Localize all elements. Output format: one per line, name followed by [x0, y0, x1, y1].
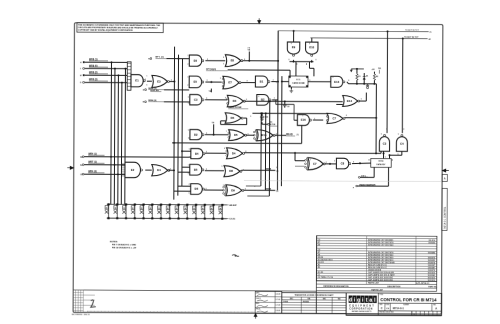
svg-text:d: d — [349, 297, 352, 303]
DEC digital logo — [349, 295, 353, 302]
svg-text:5: 5 — [250, 116, 251, 118]
svg-text:6: 6 — [361, 99, 362, 101]
network bottom rail — [107, 217, 227, 220]
svg-text:2-7-68: 2-7-68 — [276, 305, 281, 307]
network cell 6: resistor and diode — [151, 205, 153, 219]
handwritten mark 2 — [91, 300, 96, 307]
test point stub T.B — [213, 124, 215, 134]
svg-text:9: 9 — [332, 77, 333, 79]
svg-text:A: A — [444, 178, 446, 181]
svg-text:2: 2 — [188, 173, 189, 175]
wire D2 to D5 — [205, 134, 229, 136]
svg-text:8: 8 — [145, 79, 146, 81]
network cell 5: resistor and diode — [143, 204, 145, 218]
wire B4 to D4 — [205, 152, 227, 154]
gate D6 — [225, 113, 243, 123]
svg-text:DESCRIPTION: DESCRIPTION — [387, 286, 401, 288]
svg-text:1: 1 — [223, 185, 224, 187]
svg-text:E13: E13 — [334, 80, 339, 84]
wire E2 to E4 — [145, 169, 151, 171]
svg-text:D1: D1 — [366, 76, 368, 78]
svg-text:8: 8 — [315, 60, 316, 62]
svg-text:C2 (7): C2 (7) — [229, 219, 235, 221]
gate C7 (xor) — [305, 158, 326, 170]
faint scanner streak — [244, 180, 441, 183]
svg-text:8: 8 — [353, 162, 354, 164]
svg-text:6: 6 — [207, 80, 208, 82]
svg-text:C: C — [381, 307, 383, 310]
disclaimer notice box — [77, 23, 163, 33]
svg-text:6: 6 — [248, 133, 249, 135]
gate E5 — [189, 76, 204, 88]
svg-text:PRINTED CIRCUIT REV.: PRINTED CIRCUIT REV. — [379, 312, 394, 314]
svg-text:6: 6 — [171, 80, 172, 82]
gate B5 — [190, 164, 204, 175]
network cell 13: resistor and diode — [213, 205, 215, 219]
svg-text:3: 3 — [273, 80, 274, 82]
gate D3 — [227, 95, 246, 107]
svg-text:1: 1 — [188, 55, 189, 57]
svg-text:2: 2 — [334, 160, 335, 162]
svg-text:C3: C3 — [194, 98, 198, 102]
svg-text:3: 3 — [220, 78, 221, 80]
svg-text:INTEGRATED CKT DEC7440: INTEGRATED CKT DEC7440 — [368, 244, 393, 247]
diode D1 — [363, 80, 365, 84]
svg-text:8: 8 — [346, 115, 347, 117]
svg-text:9: 9 — [188, 96, 189, 98]
svg-text:6: 6 — [243, 169, 244, 171]
svg-text:1: 1 — [310, 159, 311, 161]
svg-text:B4: B4 — [195, 152, 199, 156]
svg-text:R1: R1 — [358, 76, 360, 78]
svg-text:8: 8 — [206, 133, 207, 135]
size/code/number/rev row — [384, 303, 386, 311]
svg-text:9: 9 — [188, 130, 189, 132]
svg-text:E8: E8 — [318, 244, 320, 246]
svg-text:2: 2 — [254, 186, 255, 188]
bottom center arrow — [254, 313, 257, 318]
flip-flop DATA READY — [371, 158, 391, 167]
svg-text:8: 8 — [276, 133, 277, 135]
svg-text:TP1: TP1 — [378, 68, 381, 70]
svg-text:R2: R2 — [376, 76, 378, 78]
svg-text:E6: E6 — [194, 59, 198, 63]
wire E11 to E13 — [308, 81, 331, 83]
svg-text:3: 3 — [302, 115, 303, 117]
network cell 7: resistor and diode — [160, 205, 162, 219]
gate E13 — [331, 76, 345, 87]
wire C8 to DATA READY — [352, 162, 371, 165]
gate E14 — [343, 95, 360, 106]
left center arrow — [67, 166, 73, 169]
svg-text:B1: B1 — [260, 79, 264, 83]
wire B6 to D9 — [204, 189, 223, 191]
gate E6 — [189, 55, 204, 66]
svg-text:F1: F1 — [430, 32, 432, 34]
svg-text:6: 6 — [206, 151, 207, 153]
network cell 3: resistor and diode — [125, 204, 127, 218]
parts list table — [316, 236, 437, 282]
svg-text:E14: E14 — [347, 99, 352, 103]
svg-text:PARTS LIST: PARTS LIST — [371, 289, 383, 292]
svg-text:EQUIPMENT: EQUIPMENT — [349, 305, 375, 307]
wire E4 out — [169, 169, 174, 171]
svg-text:M714-0-1: M714-0-1 — [393, 306, 405, 310]
gate C11 — [379, 134, 389, 151]
svg-text:B2: B2 — [261, 98, 265, 102]
svg-text:REFERENCE DESIGNATION: REFERENCE DESIGNATION — [323, 285, 349, 288]
capacitor C8 — [284, 101, 286, 104]
svg-text:TITLE: TITLE — [379, 294, 383, 296]
signal BP 1 (1) — [150, 58, 152, 60]
svg-text:E15: E15 — [262, 133, 267, 137]
network cell 9: resistor and diode — [178, 205, 180, 219]
signal (A) input to E5 — [145, 89, 147, 91]
parts col sep 2 — [415, 236, 417, 284]
svg-text:E5: E5 — [194, 80, 198, 84]
svg-text:2-8-68: 2-8-68 — [276, 310, 281, 312]
svg-text:PARTS LIST: PARTS LIST — [368, 282, 380, 285]
wire C7 out — [345, 117, 377, 119]
svg-text:3: 3 — [274, 98, 275, 100]
svg-text:B E14: B E14 — [379, 160, 384, 163]
svg-text:E4: E4 — [157, 168, 161, 172]
svg-text:7.5: 7.5 — [248, 48, 250, 50]
svg-text:5: 5 — [189, 193, 190, 195]
svg-text:6: 6 — [314, 118, 315, 120]
svg-text:E1: E1 — [135, 79, 139, 83]
svg-text:6: 6 — [326, 162, 327, 164]
right edge drawing number strip — [442, 188, 447, 230]
svg-text:1: 1 — [188, 165, 189, 167]
gate D4 — [226, 148, 245, 159]
title block logo separator — [377, 293, 379, 315]
svg-text:9: 9 — [221, 166, 222, 168]
svg-text:C4: C4 — [400, 142, 404, 146]
svg-text:1909486: 1909486 — [428, 251, 435, 254]
ground below E11 — [290, 87, 292, 89]
svg-text:ENG.: ENG. — [256, 303, 260, 305]
svg-text:PIN 7 ON EACH IC = GND: PIN 7 ON EACH IC = GND — [112, 243, 137, 246]
svg-text:PART NO.: PART NO. — [428, 285, 437, 288]
svg-text:6: 6 — [170, 168, 171, 170]
wire E7 to B1 — [241, 82, 255, 84]
resistor R2 — [373, 80, 375, 84]
input connectors group 2 — [82, 156, 84, 158]
signal E.T.B — [261, 122, 263, 124]
svg-text:WBB: WBB — [266, 169, 272, 171]
svg-text:5: 5 — [276, 82, 277, 84]
svg-text:BS-B14: BS-B14 — [429, 239, 435, 242]
network cell 4: resistor and diode — [134, 204, 136, 218]
gate C3 — [190, 95, 204, 105]
svg-text:READ: READ — [286, 133, 293, 136]
vertical bus x281.5 — [280, 76, 283, 186]
network cell 8: resistor and diode — [169, 205, 171, 219]
svg-text:PROD.: PROD. — [256, 309, 261, 311]
wire E1 to E3 — [147, 80, 152, 82]
gate B1 — [255, 76, 270, 87]
svg-text:CARD DONE: CARD DONE — [292, 82, 305, 85]
line to C7 with capacitor C14 — [252, 112, 327, 114]
svg-text:DRN.: DRN. — [256, 292, 260, 294]
svg-text:C7: C7 — [332, 116, 336, 120]
signal (B) input to C3 — [145, 101, 147, 103]
network cell 14: resistor and diode — [221, 205, 223, 219]
gate B6 — [191, 184, 205, 195]
svg-text:6: 6 — [246, 99, 247, 101]
wires under C11/C12 — [380, 151, 382, 153]
signature block — [255, 291, 282, 313]
right center arrow — [442, 169, 449, 172]
svg-text:WR4 (1): WR4 (1) — [148, 87, 156, 90]
svg-text:CONTROL FOR CR 8I M714: CONTROL FOR CR 8I M714 — [380, 297, 437, 302]
svg-text:B6: B6 — [195, 187, 199, 191]
svg-text:C2 THRU C7,C16: C2 THRU C7,C16 — [318, 277, 333, 279]
svg-text:6: 6 — [276, 135, 277, 137]
wire E5 to E7 — [205, 81, 221, 83]
wire D8 out — [241, 169, 275, 171]
svg-text:8: 8 — [245, 151, 246, 153]
svg-text:1: 1 — [226, 131, 227, 133]
svg-text:8: 8 — [206, 98, 207, 100]
gate D2 — [190, 130, 204, 140]
svg-text:D4: D4 — [232, 151, 236, 155]
svg-text:AB A3F: AB A3F — [229, 204, 237, 207]
svg-text:WR4 (0): WR4 (0) — [148, 99, 156, 102]
gate E7 — [222, 76, 241, 89]
svg-text:2-6-68: 2-6-68 — [276, 294, 281, 296]
wire down from node — [375, 84, 377, 154]
svg-text:10: 10 — [188, 137, 190, 139]
gate E9 — [287, 42, 299, 56]
svg-text:E9: E9 — [292, 45, 296, 49]
long wire y143 — [172, 142, 302, 145]
svg-text:D3: D3 — [233, 99, 237, 103]
svg-text:2: 2 — [125, 75, 126, 77]
parts col sep 1 — [365, 236, 367, 284]
network top rail — [107, 203, 227, 206]
svg-text:PIN 14 ON EACH IC = +5V: PIN 14 ON EACH IC = +5V — [112, 246, 137, 249]
top center arrow — [258, 18, 261, 23]
svg-text:SIZE: SIZE — [379, 304, 382, 306]
long wire to DATA READY / C11 — [244, 152, 381, 155]
svg-text:NUMBER: NUMBER — [403, 304, 409, 306]
svg-text:E16: E16 — [301, 118, 306, 122]
E1 input ladder — [127, 62, 131, 90]
svg-text:L: L — [80, 68, 81, 70]
svg-text:2: 2 — [258, 96, 259, 98]
wire E13 output — [347, 82, 349, 84]
gate E16 — [297, 115, 311, 126]
gate B4 — [191, 149, 205, 159]
gate E10 — [306, 42, 318, 56]
svg-text:P: P — [353, 187, 354, 189]
DATA READY bottom pins — [373, 167, 375, 177]
D6 feedback loop — [244, 117, 247, 119]
capacitor C14 — [261, 113, 263, 116]
svg-text:C3: C3 — [383, 142, 387, 146]
wire B1 to bus — [271, 81, 278, 83]
svg-text:D2: D2 — [194, 133, 198, 137]
wire D9 out — [243, 189, 275, 191]
svg-text:5: 5 — [223, 63, 224, 65]
svg-text:C8: C8 — [341, 161, 345, 165]
wire E16 to C7 — [313, 119, 323, 121]
svg-text:t: t — [366, 297, 368, 303]
svg-text:9: 9 — [381, 134, 382, 136]
gate E4 — [152, 165, 170, 176]
svg-text:9: 9 — [309, 43, 310, 45]
parts list bottom rows — [316, 280, 436, 283]
stray pen mark — [232, 255, 239, 257]
svg-text:A-PL-M714-0-1: A-PL-M714-0-1 — [416, 282, 429, 285]
network cell 11: resistor and diode — [195, 205, 197, 219]
gate E1 — [131, 75, 145, 87]
capacitor below line — [367, 84, 369, 85]
resistor R1 — [356, 80, 358, 84]
svg-text:6: 6 — [309, 80, 310, 82]
vertical bus x277.6 — [276, 31, 279, 190]
gate D8 — [224, 166, 242, 177]
svg-text:6: 6 — [245, 188, 246, 190]
svg-text:1: 1 — [187, 77, 188, 79]
right edge code box — [442, 174, 447, 181]
wire D5 to E15 — [246, 134, 254, 136]
svg-text:D9: D9 — [231, 188, 235, 192]
svg-text:2: 2 — [187, 85, 188, 87]
svg-text:1909686: 1909686 — [428, 242, 435, 244]
svg-text:CORPORATION: CORPORATION — [349, 308, 373, 311]
svg-text:2: 2 — [187, 64, 188, 66]
svg-text:C14: C14 — [265, 116, 268, 119]
svg-text:6: 6 — [146, 84, 147, 86]
svg-text:TRANSISTOR & DIODE CONVERSION: TRANSISTOR & DIODE CONVERSION CHART — [294, 294, 334, 297]
svg-text:a: a — [369, 297, 372, 303]
wire D3 out to E14 — [245, 100, 343, 102]
vertical feedback wires x261/265/269 — [260, 113, 262, 186]
vertical into E16 — [275, 100, 277, 104]
svg-text:8: 8 — [206, 188, 207, 190]
svg-text:IN3606: IN3606 — [303, 301, 309, 303]
bus lines mid — [173, 47, 176, 200]
wire E14 out — [359, 100, 366, 102]
wire into E11 — [282, 81, 289, 83]
E8 output with test point stub — [242, 60, 278, 62]
svg-text:9: 9 — [189, 149, 190, 151]
svg-text:M714-0-1 CONTROL: M714-0-1 CONTROL — [445, 206, 447, 228]
network cell 2: resistor and diode — [116, 204, 118, 218]
gate E8 — [225, 55, 243, 67]
svg-text:8: 8 — [288, 59, 289, 61]
svg-text:D5: D5 — [234, 133, 238, 137]
svg-text:A: A — [435, 307, 437, 311]
svg-text:E10: E10 — [309, 45, 314, 49]
parts list left edge extended — [315, 236, 317, 314]
svg-text:8: 8 — [403, 129, 404, 131]
svg-text:E3: E3 — [157, 79, 161, 83]
svg-text:10: 10 — [189, 157, 191, 159]
svg-text:9: 9 — [291, 43, 292, 45]
wire E15 out READ — [275, 134, 286, 136]
wire down to E9 — [293, 31, 295, 42]
svg-text:g: g — [357, 297, 360, 303]
gate C8 — [336, 158, 350, 169]
network cell 12: resistor and diode — [204, 205, 206, 219]
svg-text:C7: C7 — [313, 162, 317, 166]
svg-text:6: 6 — [207, 59, 208, 61]
title block — [346, 293, 442, 316]
wires E9/E10 outputs — [292, 60, 294, 62]
title block bottom — [346, 314, 441, 316]
input connectors group 1 — [83, 61, 85, 63]
network cell 1: resistor and diode — [108, 204, 110, 218]
top wire line1 — [278, 30, 428, 33]
gate D9 — [223, 185, 244, 196]
gate C7 (or) — [326, 113, 345, 123]
svg-text:TO BCT IN TCT: TO BCT IN TCT — [404, 37, 419, 39]
svg-text:E8: E8 — [231, 59, 235, 63]
svg-text:DEC FORM NO: DEC FORM NO — [72, 314, 84, 316]
svg-text:B5: B5 — [194, 168, 198, 172]
gate E2 — [125, 162, 143, 177]
svg-text:2-7-68: 2-7-68 — [276, 299, 281, 301]
wire B5 to D8 — [205, 170, 224, 172]
svg-text:CODE: CODE — [385, 304, 389, 306]
wire C12 bubble up to line2 — [401, 39, 403, 134]
gate E3 — [152, 75, 170, 87]
wire B2 out — [272, 99, 278, 101]
svg-text:E7: E7 — [228, 80, 232, 84]
stub E14 lower input — [336, 103, 342, 105]
gate E15 — [253, 130, 275, 141]
svg-text:DATA RDY: DATA RDY — [377, 163, 387, 166]
gate D5 — [228, 130, 247, 141]
svg-text:1001610: 1001610 — [428, 280, 435, 282]
svg-text:8: 8 — [386, 129, 387, 131]
flip-flop E11 CARD DONE — [289, 76, 308, 87]
top wire line2 — [310, 37, 427, 40]
svg-text:8: 8 — [348, 80, 349, 82]
transistor diode conversion chart — [282, 293, 347, 314]
svg-text:8: 8 — [247, 81, 248, 83]
revision strip top line — [73, 290, 316, 291]
network cell 10: resistor and diode — [186, 205, 188, 219]
svg-text:C8: C8 — [287, 106, 289, 108]
vertical bus lines from inputs to resistor network — [110, 62, 113, 204]
wire E3 output — [169, 81, 174, 83]
svg-text:10: 10 — [188, 103, 190, 105]
gate B2 — [257, 95, 271, 106]
gate C12 — [396, 135, 407, 152]
wire C7 to C8 — [324, 163, 336, 165]
wire C11 bubble up to line1 — [386, 31, 388, 133]
border frame — [73, 23, 443, 314]
svg-text:COPYRIGHT 1968 BY DIGITAL EQUI: COPYRIGHT 1968 BY DIGITAL EQUIPMENT CORP… — [78, 29, 133, 32]
bottom perforation ticks — [87, 311, 254, 314]
svg-text:D6: D6 — [231, 116, 235, 120]
svg-text:9: 9 — [398, 134, 399, 136]
svg-text:D8: D8 — [229, 169, 233, 173]
svg-text:8: 8 — [206, 169, 207, 171]
wire C3 to D3 — [205, 99, 227, 101]
svg-text:1: 1 — [146, 76, 147, 78]
svg-text:R2: R2 — [318, 267, 320, 269]
svg-text:TO BCT IN TCT: TO BCT IN TCT — [405, 30, 419, 32]
svg-text:WBB: WBB — [266, 189, 272, 191]
wire E6 to E8 — [205, 60, 225, 62]
svg-text:E2: E2 — [131, 168, 135, 172]
